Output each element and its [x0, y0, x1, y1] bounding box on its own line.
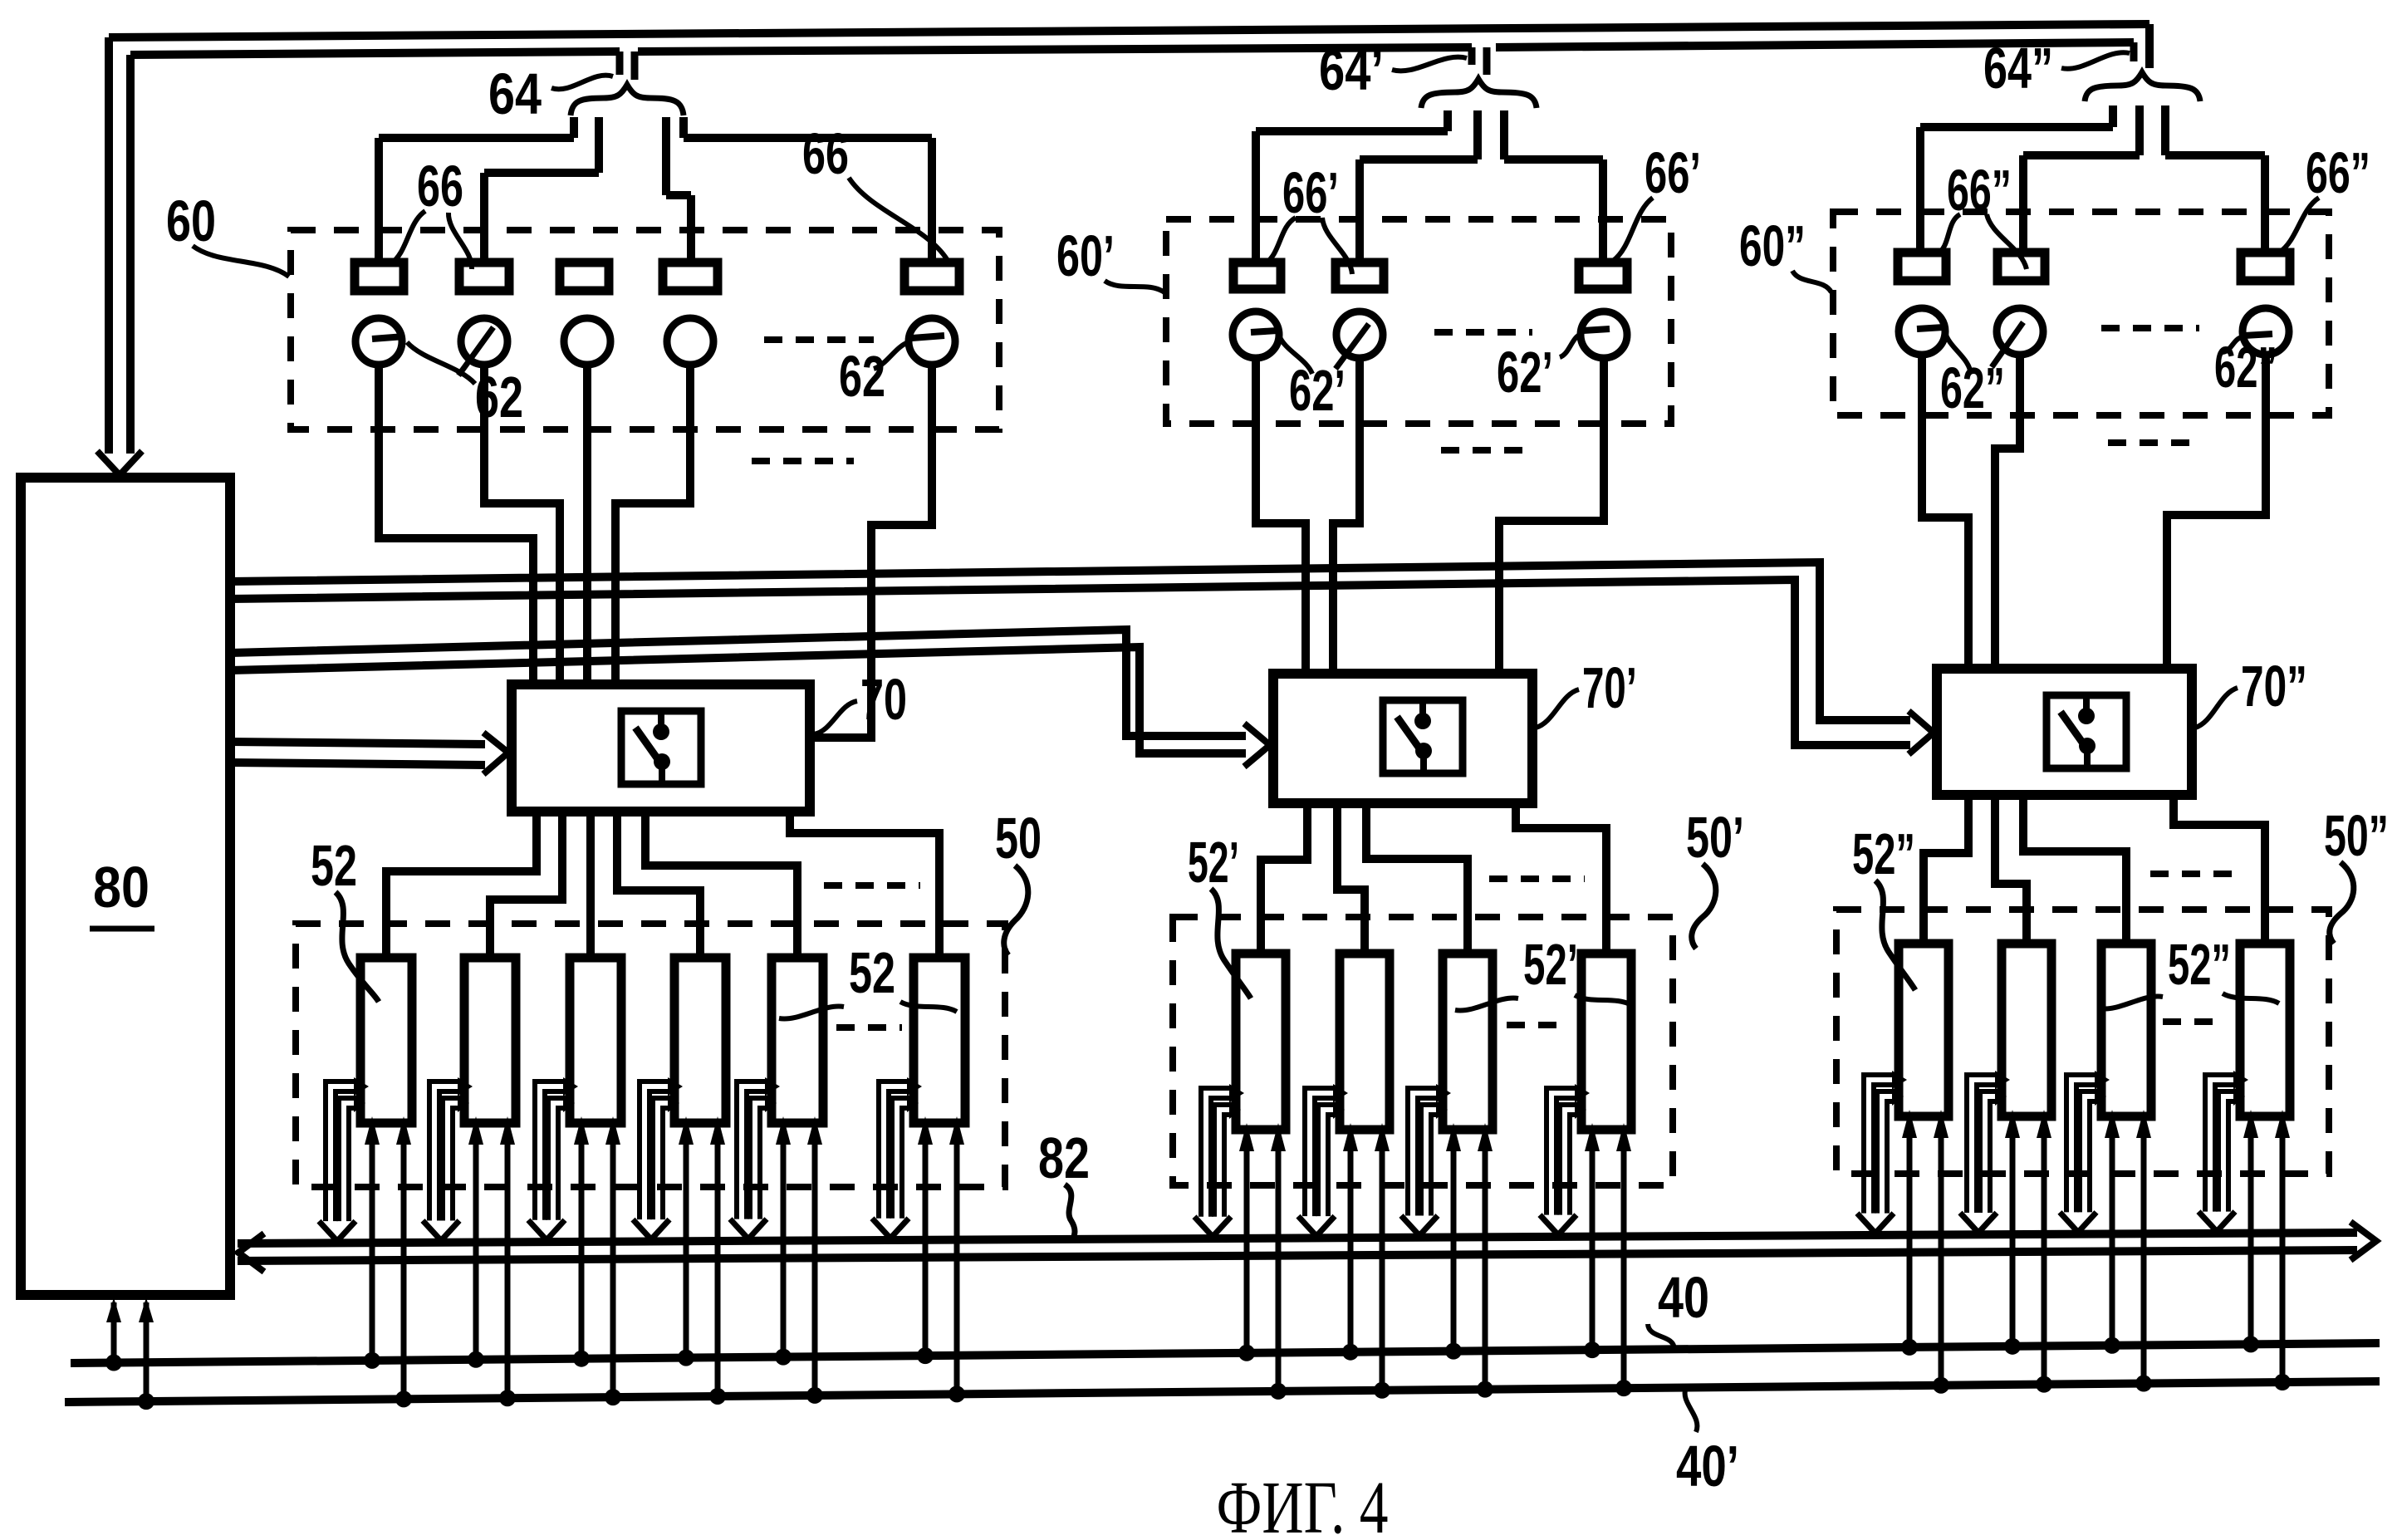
hollow arrow inner edge a 52'-3: [1421, 1105, 1439, 1215]
hollow arrow inner edge a 52-3: [548, 1098, 566, 1220]
tick in 62-1: [372, 336, 404, 339]
arrowhead up b 52''-1: [1934, 1110, 1948, 1138]
wire 70 out6: [790, 812, 939, 958]
junction dot 40' 52-2: [499, 1390, 516, 1406]
junction dot 40' 52'-2: [1374, 1382, 1390, 1399]
hollow arrowhead down 52-6: [872, 1219, 909, 1238]
dashed box 60': [1166, 219, 1671, 424]
svg-text:60”: 60”: [1739, 213, 1806, 278]
hollow arrow outer edge a 52'-3: [1408, 1088, 1439, 1215]
arrowhead up b 52'-4: [1616, 1123, 1631, 1151]
arrowhead up b 52-6: [949, 1116, 964, 1145]
leader 62''-3: [2223, 337, 2243, 352]
svg-text:82: 82: [1038, 1126, 1090, 1190]
wire 62'-2 stem: [1333, 358, 1360, 675]
wire 70 out4: [617, 812, 700, 958]
ignition circle 62-1: [355, 318, 402, 365]
arrowhead up a 52-1: [365, 1116, 380, 1145]
arrowhead into bar lower 52-2: [458, 1094, 469, 1112]
junction dot 40' 52''-4: [2274, 1374, 2291, 1390]
arrowhead up a 52-3: [574, 1116, 589, 1145]
junction dot 40' 52'-4: [1615, 1380, 1632, 1396]
feed line 40' to 52'-4: [1621, 1145, 1627, 1388]
feed line 40 to 52'-3: [1451, 1145, 1457, 1351]
node 64' break tick left: [1468, 47, 1476, 65]
junction dot 40 52-6: [917, 1347, 934, 1364]
wire 70' out2: [1337, 803, 1365, 954]
svg-text:ФИГ. 4: ФИГ. 4: [1217, 1467, 1389, 1540]
hollow arrow inner edge a 52-2: [443, 1098, 461, 1220]
hollow arrow outer edge b 52-4: [649, 1091, 671, 1219]
bus pair A upper (80 to 70''): [230, 562, 1910, 720]
arrowhead up b 52''-3: [2136, 1110, 2151, 1138]
switch blade 70: [635, 728, 658, 759]
feed line 40 to 52''-4: [2248, 1131, 2254, 1344]
hollow arrow outer edge a 52'-1: [1201, 1088, 1233, 1217]
arrowhead up a 52''-3: [2105, 1110, 2120, 1138]
hollow arrow inner edge a 52''-1: [1877, 1091, 1895, 1214]
svg-text:52”: 52”: [2168, 932, 2231, 997]
wire 70' out4: [1516, 803, 1606, 954]
svg-text:66’: 66’: [1282, 160, 1339, 225]
ellipsis in 60: [764, 336, 874, 343]
hollow arrowhead down 52-2: [423, 1220, 459, 1240]
leader 60 squiggle: [193, 246, 289, 277]
arrowhead into bar lower 52'-1: [1229, 1101, 1241, 1119]
arrowhead into 70: [483, 733, 508, 774]
arrowhead up b 52'-2: [1375, 1123, 1390, 1151]
junction dot 40' 52-6: [949, 1386, 965, 1402]
wire top bus inner line segment 3: [1496, 42, 2134, 47]
wire stub 64-1: [570, 117, 578, 138]
svg-text:52’: 52’: [1188, 830, 1239, 895]
hollow arrow outer edge b 52-3: [545, 1091, 566, 1220]
wire 64-2 to 66-2 horizontal: [484, 169, 599, 177]
junction dot 40' 52''-1: [1933, 1377, 1949, 1394]
arrowhead into bar upper 52-3: [563, 1077, 578, 1096]
switch blade 70'': [2061, 712, 2083, 743]
hollow arrow outer edge b 52-5: [747, 1091, 768, 1219]
switch stub bottom 70': [1420, 751, 1427, 773]
node 64'' inner end tick: [2130, 42, 2138, 61]
tick in 62-5: [912, 336, 944, 338]
ellipsis in 50'' upper: [2150, 871, 2244, 877]
arrowhead up b 52-2: [500, 1116, 515, 1145]
injector bar 52'-4: [1581, 954, 1631, 1130]
arrowhead into bar upper 52'-4: [1575, 1084, 1590, 1102]
sensor 66'-2: [1336, 262, 1384, 289]
svg-text:52”: 52”: [1852, 821, 1915, 886]
hollow arrow outer edge a 52-5: [737, 1081, 768, 1219]
leader 60'' squiggle: [1792, 271, 1831, 292]
leader 62''-2 diagonal: [1992, 322, 2023, 367]
hollow arrow inner edge b 52''-2: [1990, 1101, 1998, 1213]
feed line 40 to 52''-3: [2110, 1131, 2115, 1346]
injector bar 52'-1: [1236, 954, 1286, 1130]
junction dot 40 52-3: [573, 1351, 590, 1367]
arrowhead into bar upper 52'-3: [1436, 1084, 1451, 1102]
hollow arrow inner edge a 52''-3: [2080, 1091, 2098, 1212]
node 64 break tick right: [631, 51, 639, 80]
junction dot 40 52''-1: [1901, 1339, 1918, 1356]
arrowhead up into 80 a: [106, 1297, 121, 1322]
sensor 66''-3: [2241, 253, 2290, 281]
svg-text:80: 80: [93, 855, 150, 920]
junction dot 40 52'-1: [1238, 1345, 1255, 1361]
arrowhead into bar upper 52'-1: [1229, 1084, 1244, 1102]
hollow arrow outer edge a 52''-1: [1864, 1075, 1895, 1214]
hollow arrow inner edge b 52''-1: [1887, 1101, 1895, 1214]
wire 62-4 stem: [615, 365, 690, 686]
arrowhead up b 52'-3: [1478, 1123, 1493, 1151]
dashed box 60: [291, 230, 999, 429]
wire 66''-3 feed vertical: [2261, 155, 2269, 254]
ignition circle 62'-2: [1336, 311, 1383, 358]
hollow arrow outer edge b 52-2: [439, 1091, 461, 1220]
arrowhead into bar upper 52'-2: [1333, 1084, 1348, 1102]
hollow arrow inner edge a 52'-1: [1214, 1105, 1233, 1217]
arrowhead up a 52-2: [468, 1116, 483, 1145]
ignition circle 62-4: [667, 318, 713, 365]
leader 50'' S-squiggle: [2330, 862, 2354, 944]
switch symbol box 70: [621, 711, 701, 784]
wire 66-5 feed vertical: [928, 138, 936, 264]
feed line 40 to 52''-1: [1907, 1131, 1913, 1347]
arrowhead up b 52'-1: [1271, 1123, 1286, 1151]
wire stub 64'-3: [1500, 110, 1508, 159]
junction dot 40' 52''-3: [2135, 1376, 2152, 1392]
arrowhead into bar upper 52''-3: [2095, 1071, 2110, 1089]
wire 70'' out2: [1995, 795, 2027, 944]
arrowhead up a 52-5: [776, 1116, 791, 1145]
feed line 40 to 52-4: [684, 1138, 689, 1358]
block 80 (controller): [21, 478, 230, 1295]
feed line 40' to 52-1: [401, 1138, 407, 1399]
wire 62''-2 stem: [1995, 355, 2020, 670]
bus pair D lower (80 to 70'): [230, 647, 1246, 753]
arrowhead up a 52''-4: [2243, 1110, 2258, 1138]
junction dot 40' 52''-2: [2036, 1376, 2052, 1393]
hollow arrow inner edge b 52-2: [453, 1108, 461, 1220]
arrowhead up b 52''-2: [2037, 1110, 2051, 1138]
feed line 40' to 52'-2: [1380, 1145, 1385, 1390]
arrowhead up a 52'-4: [1585, 1123, 1600, 1151]
hollow arrow outer edge b 52''-2: [1977, 1085, 1998, 1213]
arrowhead into bar lower 52'-4: [1575, 1101, 1586, 1119]
wire left drop inner: [126, 55, 135, 454]
arrowhead into 70': [1244, 723, 1270, 767]
injector bar 52-1: [360, 958, 412, 1123]
tick in 62'-3: [1583, 329, 1610, 331]
wire stub 64-3: [662, 117, 670, 195]
hollow arrow outer edge a 52''-4: [2205, 1075, 2237, 1212]
leader 62''-1: [1945, 332, 1970, 370]
hollow arrow inner edge b 52'-2: [1328, 1115, 1336, 1216]
brace 64'': [2085, 72, 2200, 101]
hollow arrowhead down 52'-2: [1298, 1216, 1335, 1236]
switch contact lower dot 70': [1415, 743, 1432, 759]
hollow arrow inner edge b 52''-4: [2228, 1101, 2237, 1212]
hollow arrow outer edge b 52'-3: [1418, 1098, 1439, 1215]
wire 66-1 feed vertical: [375, 138, 383, 264]
feed line 40' to 52'-1: [1276, 1145, 1282, 1391]
switch contact upper dot 70'': [2078, 708, 2095, 724]
switch stub bottom 70: [659, 762, 665, 784]
hollow arrow outer edge a 52-2: [429, 1081, 461, 1220]
injector bar 52-2: [464, 958, 516, 1123]
ellipsis below 60'': [2108, 439, 2203, 446]
hollow arrow inner edge b 52-4: [663, 1108, 671, 1219]
junction dot 40' 52-5: [806, 1387, 823, 1404]
bus pair C upper (80 to 70'): [230, 630, 1246, 736]
leader 64' squiggle: [1392, 57, 1467, 71]
wire stub 64''-3: [2161, 105, 2169, 155]
junction dot 40 52''-3: [2104, 1337, 2120, 1354]
leader 66'' to 66''-2: [1987, 214, 2027, 269]
hollow arrowhead down 52-1: [319, 1221, 355, 1241]
hollow arrowhead down 52''-2: [1960, 1213, 1997, 1233]
dashed box 60'': [1833, 212, 2329, 415]
hollow arrow outer edge a 52-6: [879, 1081, 910, 1219]
wire top bus outer line: [109, 24, 2149, 37]
svg-text:70: 70: [860, 667, 907, 732]
wire 70'' out1: [1924, 795, 1968, 944]
switch contact lower dot 70'': [2079, 738, 2096, 754]
feed line 40' to 52-4: [715, 1138, 721, 1396]
arrowhead into bar lower 52''-1: [1892, 1087, 1904, 1106]
ellipsis in 50' upper: [1489, 875, 1585, 882]
switch symbol box 70'': [2047, 695, 2126, 768]
brace 64: [571, 85, 684, 115]
leader 52' squiggle: [1211, 889, 1251, 998]
switch blade 70': [1397, 717, 1419, 748]
hollow arrow outer edge b 52''-1: [1874, 1085, 1895, 1214]
feed line 40' to 52-6: [954, 1138, 960, 1394]
wire 64'-2 to 66'-2 horizontal: [1360, 155, 1478, 164]
wire 70'' out3: [2023, 795, 2126, 944]
hollow arrowhead down 52'-3: [1401, 1215, 1438, 1235]
wire 62''-1 stem: [1922, 355, 1968, 670]
wire 62'-3 stem: [1499, 358, 1604, 675]
ellipsis in 50 lower: [836, 1024, 902, 1031]
arrowhead into bar lower 52-1: [354, 1094, 365, 1112]
svg-text:64’: 64’: [1319, 37, 1384, 102]
ellipsis in 50 upper: [824, 882, 920, 889]
wire 62-3 stem: [583, 365, 591, 686]
feed line 40 to 52-5: [781, 1138, 787, 1357]
injector bar 52'-2: [1340, 954, 1390, 1130]
hollow arrow outer edge b 52''-4: [2215, 1085, 2237, 1212]
feed line 40 to 52-2: [473, 1138, 479, 1360]
tick in 62''-3: [2244, 334, 2272, 336]
arrowhead into bar lower 52''-3: [2095, 1087, 2106, 1106]
junction dot 40 52''-2: [2004, 1338, 2021, 1355]
wire stub 64'-1: [1444, 110, 1452, 131]
leader 50' S-squiggle: [1692, 864, 1716, 949]
injector bar 52''-3: [2101, 944, 2151, 1116]
hollow arrow outer edge a 52-1: [326, 1081, 357, 1221]
sensor 66-1: [355, 262, 404, 291]
feed line 40' to 80: [144, 1302, 150, 1401]
arrowhead into bar lower 52'-2: [1333, 1101, 1345, 1119]
arrowhead into bar lower 52''-2: [1995, 1087, 2007, 1106]
arrowhead into bar upper 52-6: [907, 1077, 922, 1096]
ellipsis in 50'' lower: [2163, 1018, 2226, 1025]
feed line 40 to 52''-2: [2010, 1131, 2016, 1346]
svg-text:52: 52: [849, 940, 895, 1005]
wire 66'-2 feed vertical: [1355, 159, 1364, 264]
svg-text:60: 60: [166, 189, 216, 253]
injector bar 52-5: [772, 958, 823, 1123]
hollow arrow outer edge b 52'-2: [1315, 1098, 1336, 1216]
feed line 40' to 52'-3: [1483, 1145, 1488, 1390]
junction dot 40' 52-3: [605, 1389, 621, 1405]
bus 40 line: [71, 1343, 2380, 1363]
arrowhead 82 left: [238, 1233, 264, 1272]
wire 62-2 stem: [484, 365, 560, 686]
feed line 40' to 52-5: [812, 1138, 818, 1395]
junction dot 40 at 80: [105, 1355, 122, 1371]
ellipsis in 60': [1434, 329, 1532, 336]
arrowhead up a 52-4: [679, 1116, 694, 1145]
wire top bus outer right drop at 64'': [2145, 24, 2154, 68]
wire 70 out3: [586, 812, 595, 958]
wire 70' out3: [1366, 803, 1468, 954]
switch unit 70: [512, 684, 810, 812]
ellipsis below 60': [1441, 447, 1535, 454]
feed line 40 to 52'-2: [1348, 1145, 1354, 1352]
wire stub 64''-1: [2109, 105, 2117, 127]
svg-text:64”: 64”: [1983, 36, 2053, 101]
ignition circle 62'-3: [1581, 311, 1627, 358]
ellipsis below 60: [752, 458, 854, 464]
wire top bus inner line segment 1: [130, 51, 620, 55]
hollow arrow outer edge b 52'-1: [1211, 1098, 1233, 1217]
hollow arrow inner edge b 52-1: [349, 1108, 357, 1221]
svg-text:66: 66: [802, 121, 849, 186]
junction dot 40' at 80: [138, 1393, 154, 1410]
switch stub top 70: [658, 711, 664, 732]
leader 66 to 66-2: [449, 213, 472, 269]
arrowhead up a 52''-1: [1902, 1110, 1917, 1138]
svg-text:66”: 66”: [1947, 158, 2012, 223]
switch unit 70'': [1937, 669, 2192, 795]
feed line 40 to 52-6: [923, 1138, 929, 1356]
wire stub 64-4: [679, 117, 688, 138]
injector bar 52-3: [570, 958, 621, 1123]
hollow arrow inner edge a 52''-2: [1980, 1091, 1998, 1213]
svg-text:50: 50: [995, 806, 1042, 871]
arrowhead up b 52''-4: [2275, 1110, 2290, 1138]
arrowhead into box 80 top: [97, 451, 142, 475]
arrowhead into bar lower 52'-3: [1436, 1101, 1448, 1119]
hollow arrow outer edge b 52-6: [889, 1091, 910, 1219]
leader 62'-3: [1560, 334, 1581, 357]
ignition circle 62''-1: [1899, 308, 1945, 355]
hollow arrowhead down 52'-4: [1540, 1215, 1576, 1235]
switch stub top 70': [1419, 700, 1426, 721]
switch stub bottom 70'': [2084, 746, 2091, 768]
leader 52'' right wave a: [2100, 997, 2163, 1009]
hollow arrow outer edge b 52'-4: [1556, 1098, 1578, 1215]
leader 66'' to 66''-3: [2279, 198, 2319, 253]
dashed box 50: [296, 924, 1005, 1187]
bus pair B lower (80 to 70''): [230, 580, 1910, 745]
leader 40' squiggle: [1685, 1387, 1698, 1432]
bus 40' line: [65, 1381, 2380, 1402]
leader 66' to 66'-1: [1264, 218, 1296, 264]
wire 64-1 to 66-1 horizontal: [379, 134, 574, 142]
dashed box 50'': [1836, 910, 2329, 1174]
hollow arrow inner edge a 52-4: [653, 1098, 671, 1219]
node 64' break tick right: [1483, 47, 1491, 75]
bus 82 lower line: [238, 1250, 2357, 1261]
svg-text:70’: 70’: [1582, 655, 1637, 720]
injector bar 52-4: [674, 958, 726, 1123]
feed line 40' to 52-3: [610, 1138, 616, 1397]
junction dot 40' 52'-1: [1270, 1383, 1287, 1400]
injector bar 52'-3: [1443, 954, 1493, 1130]
leader 50 S-squiggle: [1004, 866, 1028, 955]
wire top bus inner line segment 2: [638, 47, 1472, 51]
bus pair E upper (80 to 70): [230, 742, 485, 744]
feed line 40' to 52''-4: [2280, 1131, 2286, 1382]
node 64 break tick left: [616, 51, 624, 75]
hollow arrow outer edge a 52''-3: [2066, 1075, 2098, 1212]
ignition circle 62''-2: [1997, 308, 2043, 355]
feed line 40' to 52''-2: [2042, 1131, 2047, 1385]
leader 66' to 66'-3: [1613, 198, 1653, 261]
hollow arrow inner edge b 52'-4: [1570, 1115, 1578, 1215]
wire 62-5 stem: [810, 365, 932, 738]
leader 52'' right wave b: [2223, 993, 2279, 1003]
svg-text:66: 66: [417, 154, 463, 218]
junction dot 40 52-4: [678, 1350, 694, 1366]
leader 40 squiggle: [1648, 1324, 1674, 1349]
leader 66 to 66-5: [849, 178, 947, 259]
hollow arrow inner edge a 52'-2: [1318, 1105, 1336, 1216]
svg-text:50”: 50”: [2324, 803, 2389, 868]
sensor 66-5: [904, 262, 959, 291]
leader 66' to 66'-2: [1322, 218, 1352, 274]
svg-text:40’: 40’: [1676, 1434, 1739, 1498]
bus 82 upper line: [238, 1233, 2357, 1243]
injector bar 52-6: [914, 958, 965, 1123]
arrowhead into bar upper 52-4: [668, 1077, 683, 1096]
wire stub 64''-2: [2135, 105, 2144, 155]
hollow arrow outer edge b 52''-3: [2076, 1085, 2098, 1212]
hollow arrow outer edge a 52-4: [640, 1081, 671, 1219]
leader 66 to 66-1: [390, 211, 425, 264]
sensor 66-4: [663, 262, 718, 291]
junction dot 40 52-1: [364, 1352, 380, 1369]
arrowhead up b 52-1: [396, 1116, 411, 1145]
leader 62'-2 diagonal: [1336, 324, 1369, 369]
label 80 underline: [90, 926, 154, 932]
leader 70'' squiggle: [2195, 688, 2238, 728]
wire 70' out1: [1261, 803, 1307, 954]
arrowhead up a 52-6: [918, 1116, 933, 1145]
hollow arrow inner edge b 52-3: [558, 1108, 566, 1220]
junction dot 40 52'-2: [1342, 1344, 1359, 1361]
arrowhead up a 52''-2: [2005, 1110, 2020, 1138]
switch stub top 70'': [2083, 695, 2090, 716]
svg-text:62’: 62’: [1497, 340, 1553, 405]
junction dot 40 52'-4: [1584, 1341, 1600, 1358]
leader 82 S-squiggle: [1065, 1184, 1075, 1239]
feed line 40 to 52-3: [579, 1138, 585, 1359]
dashed box 50': [1173, 917, 1673, 1185]
